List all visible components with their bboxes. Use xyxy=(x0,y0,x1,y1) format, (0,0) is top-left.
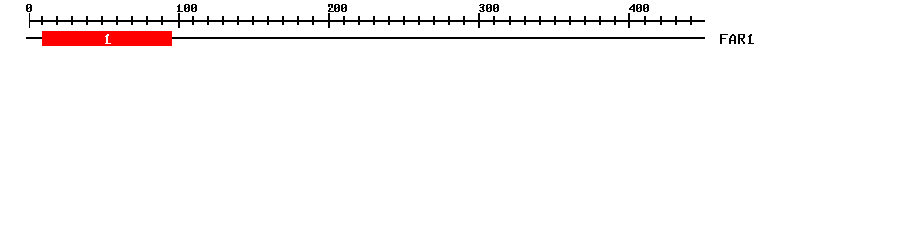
ruler major tick 300 xyxy=(478,13,480,28)
ruler label 0 xyxy=(26,4,32,12)
ruler minor ticks xyxy=(41,16,692,25)
feature baseline xyxy=(26,37,705,39)
ruler major tick 100 xyxy=(178,13,180,28)
ruler label 300 xyxy=(479,4,499,12)
ruler label 400 xyxy=(629,4,649,12)
feature exon box (red) xyxy=(42,31,172,46)
gene name FAR1 xyxy=(720,34,754,44)
genome feature map: coordinate ruler + FAR1 gene feature xyxy=(0,0,900,58)
ruler major tick 200 xyxy=(328,13,330,28)
ruler start tick (pos 0) xyxy=(29,13,30,28)
ruler baseline xyxy=(29,20,705,22)
ruler label 100 xyxy=(177,4,197,12)
ruler label 200 xyxy=(328,4,347,12)
exon label 1 (white) xyxy=(105,34,111,44)
ruler major tick 400 xyxy=(628,13,630,28)
